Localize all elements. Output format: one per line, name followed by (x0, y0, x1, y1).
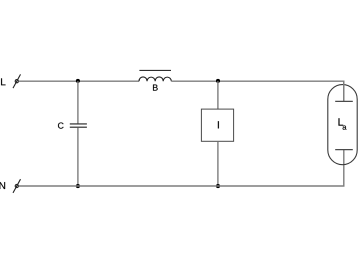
wire igniter top (217, 81, 219, 109)
label I (217, 121, 220, 128)
wire top left (19, 80, 139, 82)
label N (0, 182, 5, 189)
node N terminal (13, 179, 21, 193)
lamp bottom electrode (335, 149, 353, 151)
label La (339, 118, 344, 125)
node junction bottom-igniter (216, 184, 220, 188)
igniter box I (201, 109, 233, 141)
wire top right (171, 81, 343, 101)
lamp La envelope (328, 85, 357, 165)
node L terminal (13, 74, 21, 88)
lamp top lead (343, 81, 345, 101)
label C (58, 122, 64, 128)
capacitor C (70, 124, 87, 127)
node junction bottom-capacitor (76, 184, 80, 188)
lamp top electrode (335, 100, 353, 102)
wire bottom (19, 150, 344, 186)
inductor B (139, 77, 171, 81)
label B (153, 85, 158, 91)
wire capacitor top (77, 81, 79, 123)
node junction top-igniter (216, 79, 220, 83)
label L (1, 78, 5, 85)
inductor core line (139, 69, 171, 71)
wire capacitor bottom (77, 128, 79, 186)
wire igniter bottom (217, 141, 219, 186)
node junction top-capacitor (76, 79, 80, 83)
